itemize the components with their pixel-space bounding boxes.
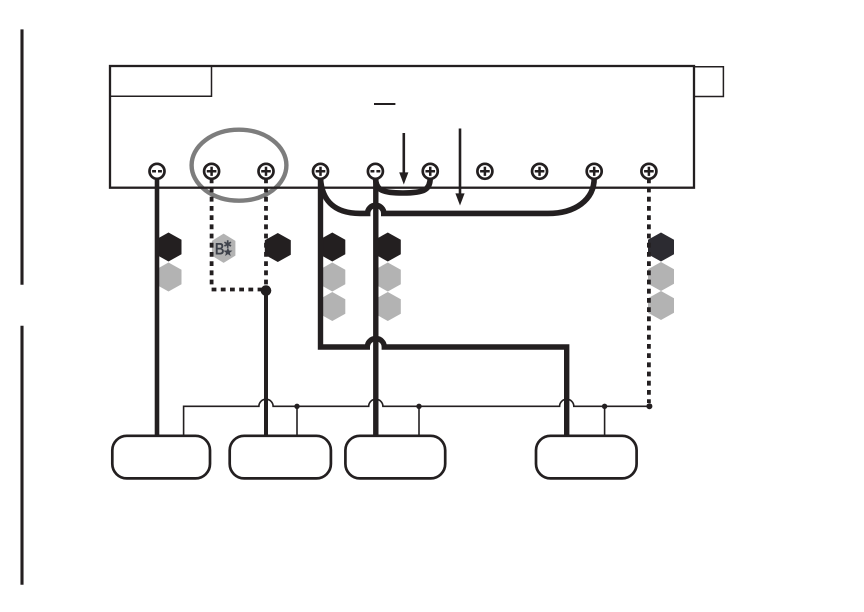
star 2 (5-point) — [223, 247, 232, 256]
wire W5: terminal 5 straight down to box 3 — [373, 171, 378, 437]
wire W4: terminal 4 down, right (hop over W5) and down to box 4 — [321, 171, 567, 437]
component box 4 — [536, 436, 637, 479]
thin drop wire to box 2 — [296, 406, 298, 437]
wire nuts on dashed wire 10: dark + two gray — [648, 233, 674, 262]
thin drop wire to box 3 — [418, 406, 420, 437]
mounting tab top-right — [694, 67, 723, 97]
terminal screw 10 — [641, 164, 656, 179]
thin drop wire to box 4 — [604, 406, 606, 437]
junction dot bus/box2 drop — [294, 404, 299, 409]
star 1 (asterisk) — [224, 240, 231, 248]
wire nut (black) on wire 1 — [156, 233, 182, 262]
terminal screw 4 — [313, 164, 328, 179]
junction dot bus/box3 drop — [416, 404, 421, 409]
wire nut B* (gray hexagon with label) on dashed wire 2 — [212, 234, 236, 263]
junction dot at dashed wye — [261, 285, 272, 296]
jumper arc terminal 5 to terminal 6 — [376, 178, 431, 193]
wire nuts on wire 5: black + two gray — [375, 233, 401, 262]
gray highlight ellipse around terminals 2 and 3 — [192, 130, 287, 201]
component box 3 — [345, 436, 445, 479]
terminal screw 2 — [204, 164, 219, 179]
dashed wire W10: terminal 10 down to thin bus end — [647, 178, 651, 403]
wire nut (gray) on wire 1 — [156, 263, 182, 292]
label notch box top-left — [111, 67, 212, 97]
thin common bus wire with hops, from box 1 to dashed wire end — [184, 399, 650, 437]
margin rule lower left — [20, 326, 23, 585]
terminal screw 5 (slotted) — [368, 164, 383, 179]
callout arrow 1 (to jumper arc) — [402, 133, 405, 173]
wire nuts on wire 4: black + two gray — [319, 233, 345, 262]
terminal screw 8 — [532, 164, 547, 179]
terminal screw 1 (slotted) — [150, 164, 165, 179]
wire nut (black) on dashed wire 3 — [265, 233, 291, 262]
component box 2 — [230, 436, 331, 479]
dashed wire W3: terminal 3 down to junction — [264, 178, 268, 286]
terminal screw 3 — [259, 164, 274, 179]
terminal screw 7 — [477, 164, 492, 179]
jumper wire terminal 4 to terminal 9 (hops over W5) — [321, 178, 595, 213]
wire W3b: junction down to box 2 — [264, 291, 268, 437]
callout arrow 2 (to jumper wire) — [459, 129, 462, 195]
margin rule upper left — [20, 29, 23, 284]
component box 1 — [112, 436, 210, 479]
dash label above terminal 5 — [374, 103, 395, 105]
terminal screw 9 — [587, 164, 602, 179]
junction dot bus/box4 drop — [602, 404, 607, 409]
wire W1: terminal 1 to box 1 — [155, 171, 160, 437]
junction dot bus end at dashed wire — [646, 403, 652, 409]
terminal screw 6 — [423, 164, 438, 179]
dashed wire W2: terminal 2 down and right to junction — [212, 178, 262, 289]
control unit outline — [110, 66, 694, 188]
svg-text:B: B — [215, 240, 225, 259]
